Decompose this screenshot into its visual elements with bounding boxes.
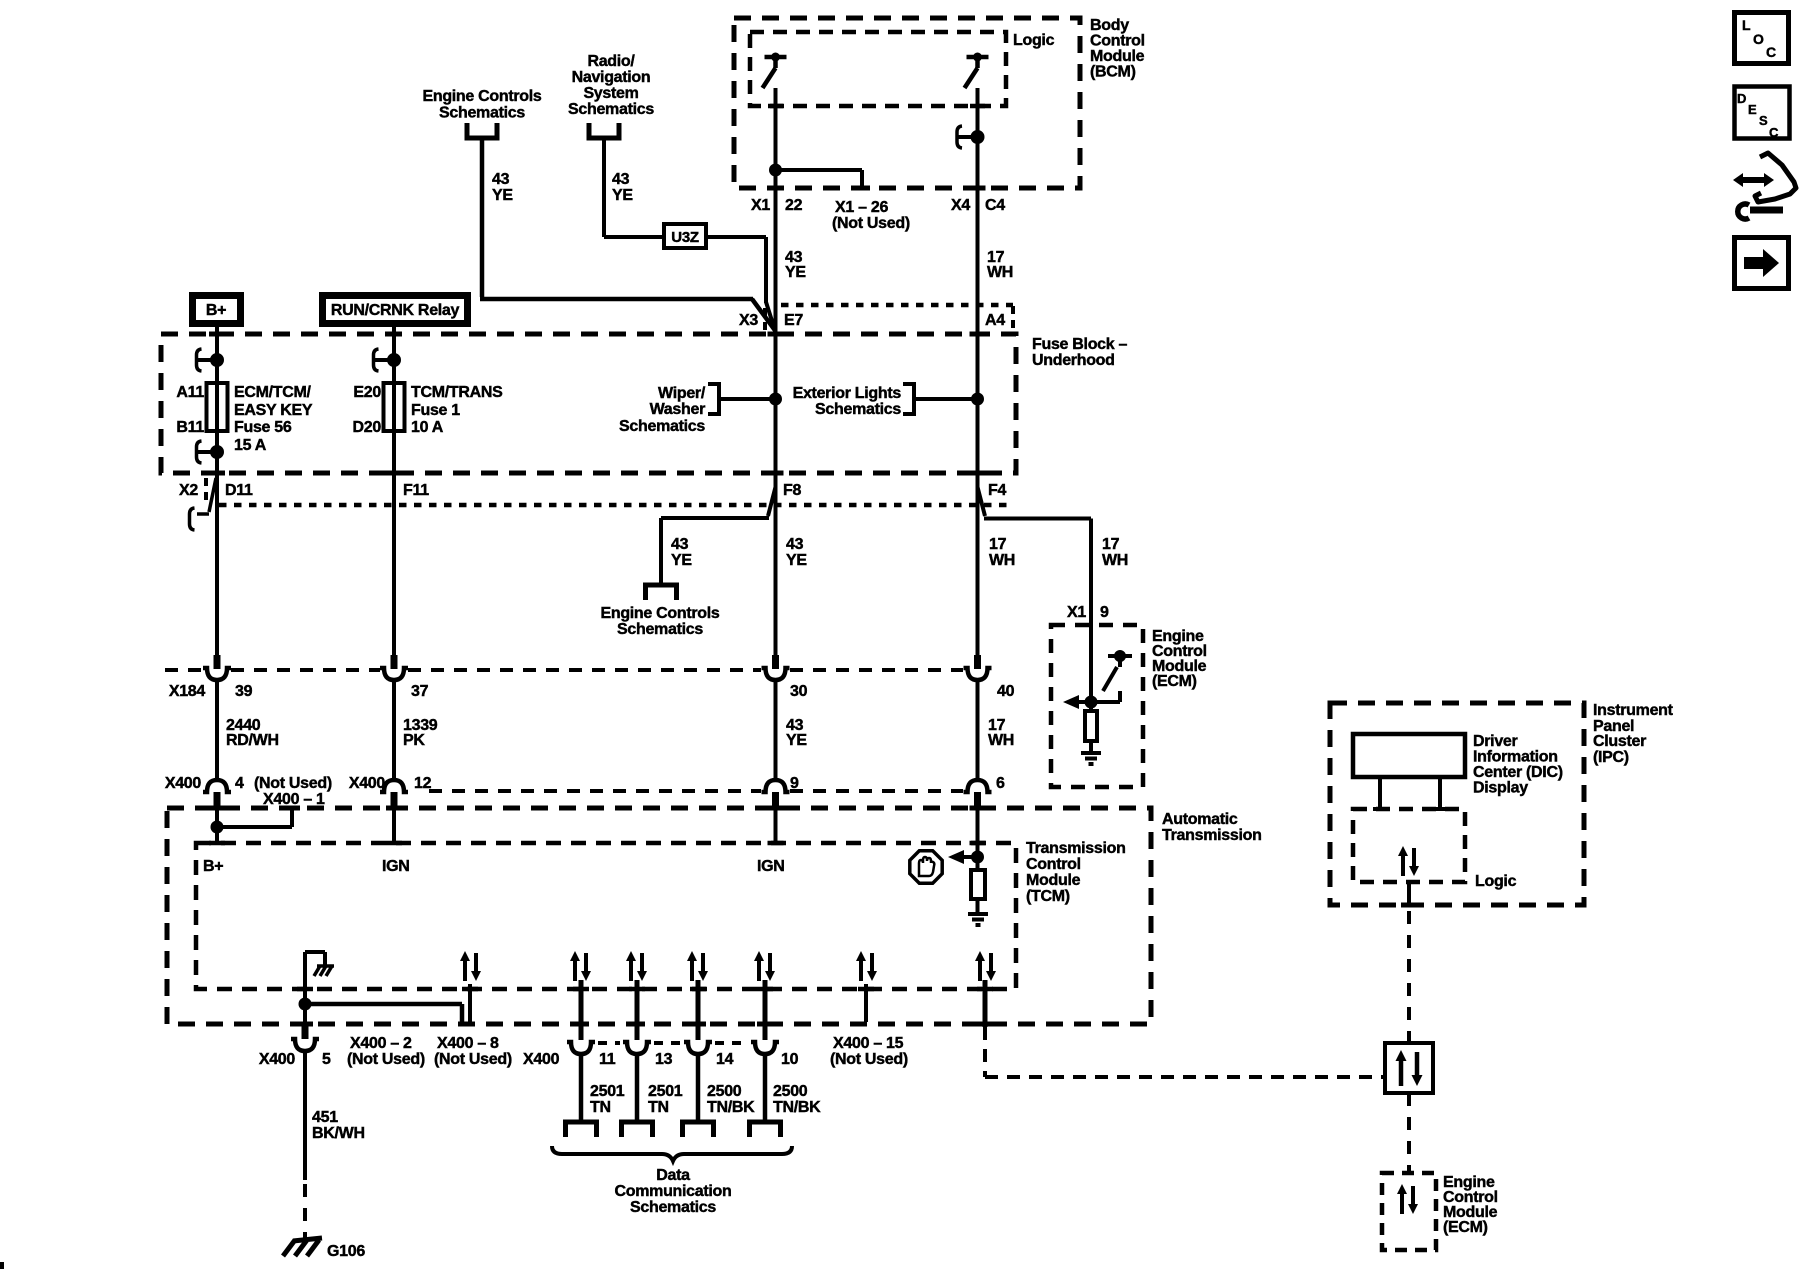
ground inside TCM bbox=[968, 914, 988, 925]
icon DESC box bbox=[1735, 87, 1790, 141]
svg-text:Information: Information bbox=[1473, 749, 1558, 766]
svg-text:39: 39 bbox=[235, 683, 253, 700]
svg-text:Cluster: Cluster bbox=[1593, 733, 1646, 750]
label 43 YE (engine controls drop) bbox=[492, 171, 513, 204]
wire 43 YE inside fuse block bbox=[774, 334, 778, 473]
label Engine Control Module (ECM) right bbox=[1152, 628, 1207, 690]
svg-text:22: 22 bbox=[785, 197, 803, 214]
svg-text:RUN/CRNK Relay: RUN/CRNK Relay bbox=[331, 302, 460, 319]
connector X184 pin 40 bbox=[964, 655, 992, 680]
svg-text:Washer: Washer bbox=[650, 401, 705, 418]
data link arrows pair (X400-15) bbox=[856, 951, 877, 981]
svg-text:15 A: 15 A bbox=[234, 437, 267, 454]
svg-text:Body: Body bbox=[1090, 17, 1129, 34]
svg-text:43: 43 bbox=[786, 536, 804, 553]
label Fuse Block - Underhood bbox=[1032, 336, 1128, 369]
svg-text:30: 30 bbox=[790, 683, 808, 700]
label 1339 PK bbox=[403, 717, 438, 749]
svg-text:9: 9 bbox=[790, 775, 799, 792]
label Wiper/Washer Schematics bbox=[619, 385, 706, 435]
wire exterior lights to 17 WH bbox=[914, 397, 973, 401]
label 17 WH (lower) bbox=[988, 717, 1014, 749]
svg-text:4: 4 bbox=[235, 775, 244, 792]
wire 2440 RD/WH (X184 to X400) bbox=[215, 680, 219, 781]
wire 43 YE (F8 to X184-30) bbox=[774, 473, 778, 655]
svg-text:Center (DIC): Center (DIC) bbox=[1473, 764, 1563, 781]
wire BCM 17 WH (switch to X4-C4) bbox=[976, 88, 980, 188]
svg-text:Automatic: Automatic bbox=[1162, 811, 1238, 828]
svg-text:TN/BK: TN/BK bbox=[707, 1099, 755, 1116]
data link arrows pair (X400-8) bbox=[460, 951, 481, 981]
svg-text:40: 40 bbox=[997, 683, 1015, 700]
svg-text:G106: G106 bbox=[327, 1243, 365, 1260]
wire 2440 RD/WH (D11 to X184-39) bbox=[215, 473, 219, 655]
in-line connector above fuse 1 bbox=[374, 349, 400, 371]
off-page connector (radio/nav) bbox=[587, 123, 622, 138]
label 17 WH (F4 drop) bbox=[989, 536, 1015, 569]
wire 17 WH branch down to ECM X1-9 bbox=[1089, 519, 1093, 703]
wire through fuse 1 bbox=[392, 360, 396, 473]
svg-text:O: O bbox=[1753, 31, 1764, 47]
chassis ground G106 bbox=[283, 1238, 322, 1256]
label X1 | 9 (ECM) bbox=[1067, 604, 1109, 621]
svg-text:12: 12 bbox=[414, 775, 432, 792]
label 43 YE (radio/nav drop) bbox=[612, 171, 633, 204]
svg-text:Data: Data bbox=[656, 1167, 690, 1184]
scan artifact bottom-left bbox=[0, 1262, 4, 1269]
junction dot TCM ground branch bbox=[301, 1000, 310, 1009]
wire 17 WH (BCM to fuse block A4) bbox=[976, 188, 980, 334]
wire 43 YE (X184 to X400) bbox=[774, 680, 778, 781]
crossing dashes fuse block bottom edge bbox=[209, 471, 986, 476]
module box Engine Control Module ECM (bottom) bbox=[1382, 1173, 1436, 1250]
label Driver Information Center (DIC) Display bbox=[1473, 733, 1563, 797]
svg-text:Engine Controls: Engine Controls bbox=[600, 605, 719, 622]
label Radio/Navigation System Schematics bbox=[568, 53, 654, 118]
label X1 - 26 (Not Used) bbox=[832, 199, 910, 232]
wire X400-1 branch (not used) bbox=[217, 808, 292, 827]
off-page terminator pin 13 bbox=[619, 1122, 655, 1137]
svg-text:B+: B+ bbox=[203, 858, 223, 875]
svg-text:RD/WH: RD/WH bbox=[226, 732, 279, 749]
svg-text:Module: Module bbox=[1090, 48, 1145, 65]
svg-text:10: 10 bbox=[781, 1051, 799, 1068]
svg-text:D: D bbox=[1737, 91, 1746, 106]
wire IGN (43 YE) into TCM bbox=[774, 806, 778, 843]
off-page terminator pin 11 bbox=[563, 1122, 599, 1137]
label 43 YE (branch) bbox=[671, 536, 692, 569]
svg-text:Schematics: Schematics bbox=[439, 105, 525, 122]
svg-text:Schematics: Schematics bbox=[568, 101, 654, 118]
svg-text:WH: WH bbox=[989, 552, 1015, 569]
label 17 WH (above A4) bbox=[987, 249, 1013, 281]
label 2440 RD/WH bbox=[226, 717, 279, 749]
splice U3Z box bbox=[664, 224, 706, 248]
svg-text:Exterior Lights: Exterior Lights bbox=[793, 385, 902, 402]
svg-text:(Not Used): (Not Used) bbox=[347, 1051, 425, 1068]
label X400 - 15 (Not Used) bbox=[830, 1035, 908, 1068]
label Exterior Lights Schematics bbox=[793, 385, 902, 418]
svg-text:YE: YE bbox=[786, 552, 807, 569]
svg-text:C4: C4 bbox=[985, 197, 1005, 214]
label A11 / B11 bbox=[176, 384, 204, 436]
wire 43 YE from engine controls schematics bbox=[480, 140, 776, 331]
module box Engine Control Module ECM (right) bbox=[1051, 625, 1143, 787]
connector tick X3 bbox=[763, 308, 767, 332]
data link arrows pair (pin 13) bbox=[626, 951, 647, 981]
svg-text:F11: F11 bbox=[403, 482, 429, 499]
wire 2500 TN/BK (pin 10) bbox=[763, 1054, 768, 1120]
wire 43 YE (BCM to fuse block E7) bbox=[774, 188, 778, 334]
data link arrows pair (pin 10) bbox=[754, 951, 775, 981]
wire X400-8 (not used) bbox=[468, 984, 472, 1022]
data connector strip dashes bbox=[598, 1041, 748, 1045]
svg-text:YE: YE bbox=[786, 732, 807, 749]
label 2500 TN/BK (pin 14) bbox=[707, 1083, 755, 1116]
X400 connector row dashed line bbox=[429, 789, 963, 793]
label Body Control Module (BCM) bbox=[1090, 17, 1145, 81]
wire 2500 TN/BK (pin 14) bbox=[696, 1054, 701, 1120]
svg-text:L: L bbox=[1742, 17, 1751, 33]
in-line connector below fuse 56 bbox=[197, 441, 223, 463]
icon LOC box bbox=[1735, 13, 1789, 64]
svg-text:YE: YE bbox=[612, 187, 633, 204]
label X1 | 22 bbox=[751, 197, 803, 214]
svg-text:Transmission: Transmission bbox=[1162, 827, 1262, 844]
svg-text:A11: A11 bbox=[176, 384, 204, 401]
svg-text:E: E bbox=[1748, 102, 1757, 117]
svg-text:F4: F4 bbox=[988, 482, 1006, 499]
svg-text:D20: D20 bbox=[353, 419, 382, 436]
svg-text:X2: X2 bbox=[179, 482, 198, 499]
connector X400 pin 10 bbox=[751, 1042, 779, 1054]
svg-text:2501: 2501 bbox=[648, 1083, 683, 1100]
wire wiper/washer to 43 YE bbox=[719, 397, 771, 401]
wire X400-2 branch (not used) bbox=[305, 1004, 462, 1022]
svg-text:ECM/TCM/: ECM/TCM/ bbox=[234, 384, 312, 401]
svg-text:43: 43 bbox=[492, 171, 510, 188]
svg-text:X400: X400 bbox=[349, 775, 386, 792]
off-page terminator pin 14 bbox=[680, 1122, 716, 1137]
svg-text:C: C bbox=[1769, 125, 1779, 140]
label 43 YE (above E7) bbox=[785, 249, 806, 281]
svg-text:BK/WH: BK/WH bbox=[312, 1125, 365, 1142]
svg-text:YE: YE bbox=[785, 264, 806, 281]
svg-text:TN/BK: TN/BK bbox=[773, 1099, 821, 1116]
svg-text:Engine Controls: Engine Controls bbox=[422, 88, 541, 105]
svg-text:2500: 2500 bbox=[773, 1083, 808, 1100]
data link arrows pair (pin 14) bbox=[687, 951, 708, 981]
label TCM/TRANS Fuse 1 10 A bbox=[411, 384, 503, 436]
dashed wire TCM to comm bus box bbox=[985, 1027, 1385, 1077]
fuse block underhood dashed box bbox=[161, 334, 1016, 473]
module box Instrument Panel Cluster IPC bbox=[1330, 703, 1584, 905]
svg-text:X1 – 26: X1 – 26 bbox=[835, 199, 888, 216]
wire 2501 TN (pin 11) bbox=[579, 1054, 584, 1120]
svg-text:IGN: IGN bbox=[382, 858, 410, 875]
resistor inside TCM bbox=[971, 857, 985, 914]
svg-text:WH: WH bbox=[988, 732, 1014, 749]
off-page connector engine controls (middle) bbox=[643, 585, 679, 600]
svg-text:C: C bbox=[1766, 44, 1776, 60]
label Engine Controls Schematics (middle) bbox=[600, 605, 719, 638]
svg-text:IGN: IGN bbox=[757, 858, 785, 875]
connector X400 pin 12 bbox=[380, 780, 408, 806]
data link arrows pair (pin 11) bbox=[570, 951, 591, 981]
svg-text:13: 13 bbox=[655, 1051, 673, 1068]
label Automatic Transmission bbox=[1162, 811, 1262, 844]
connector X400 pin 9 bbox=[762, 780, 790, 806]
svg-text:Transmission: Transmission bbox=[1026, 840, 1126, 857]
wire 1339 PK (F11 to X184-37) bbox=[392, 473, 396, 655]
crossing dashes TCM bottom edge bbox=[297, 987, 993, 992]
connector X184 pin 30 bbox=[762, 655, 790, 680]
wire 17 WH (F4 to X184-40) bbox=[976, 473, 980, 655]
resistor inside ECM bbox=[1085, 702, 1097, 753]
svg-text:Wiper/: Wiper/ bbox=[658, 385, 706, 402]
label 2501 TN (pin 11) bbox=[590, 1083, 625, 1116]
in-line connector above fuse 56 bbox=[197, 349, 223, 371]
TCM internal ground wire bbox=[305, 952, 325, 1004]
label Data Communication Schematics bbox=[615, 1167, 732, 1216]
svg-text:X400: X400 bbox=[523, 1051, 560, 1068]
svg-text:6: 6 bbox=[996, 775, 1005, 792]
switch (BCM left, drives 43 YE) bbox=[763, 53, 787, 89]
connector tick A4 bbox=[1011, 306, 1015, 333]
module box Body Control Module (BCM) bbox=[734, 18, 1080, 188]
wire RUN/CRNK to fuse E20 bbox=[392, 327, 396, 360]
arrows pair inside IPC logic bbox=[1398, 846, 1419, 876]
wire X1-26 not used branch bbox=[776, 170, 863, 188]
connector tick X2 bbox=[204, 478, 208, 503]
label X184 | 39 bbox=[169, 683, 253, 700]
switch (BCM right, drives 17 WH) bbox=[965, 53, 989, 89]
svg-text:Schematics: Schematics bbox=[815, 401, 901, 418]
svg-text:X400 – 1: X400 – 1 bbox=[263, 791, 325, 808]
wire 17 WH inside fuse block bbox=[976, 334, 980, 473]
svg-text:A4: A4 bbox=[985, 312, 1005, 329]
label Instrument Panel Cluster (IPC) bbox=[1593, 702, 1674, 766]
junction dot TCM 17 WH bbox=[973, 853, 982, 862]
svg-text:9: 9 bbox=[1100, 604, 1109, 621]
wire IPC logic to serial data (solid stub) bbox=[1407, 882, 1411, 907]
svg-text:Control: Control bbox=[1026, 856, 1081, 873]
svg-text:Display: Display bbox=[1473, 780, 1528, 797]
svg-text:Logic: Logic bbox=[1013, 32, 1055, 49]
svg-text:S: S bbox=[1759, 113, 1768, 128]
connector X400 pin 13 bbox=[623, 1042, 651, 1054]
label Engine Controls Schematics (top) bbox=[422, 88, 541, 122]
label ECM/TCM/ EASY KEY Fuse 56 15 A bbox=[234, 384, 313, 454]
svg-text:X400 – 15: X400 – 15 bbox=[833, 1035, 904, 1052]
data bus wire stub pin 10 bbox=[763, 980, 768, 1040]
dashed wire to G106 bbox=[303, 1184, 307, 1242]
svg-text:YE: YE bbox=[492, 187, 513, 204]
connector X400 pin 4 bbox=[203, 780, 231, 806]
fuse ECM/TCM/EASY KEY Fuse 56 bbox=[207, 383, 228, 431]
svg-text:X400 – 2: X400 – 2 bbox=[350, 1035, 412, 1052]
svg-text:10 A: 10 A bbox=[411, 419, 444, 436]
svg-text:Schematics: Schematics bbox=[617, 621, 703, 638]
wire 451 BK/WH to G106 bbox=[303, 1052, 307, 1180]
signal arrow out of ECM bbox=[1063, 695, 1091, 709]
label 2501 TN (pin 13) bbox=[648, 1083, 683, 1116]
label X2 | D11 bbox=[179, 482, 253, 499]
icon forward arrow box bbox=[1735, 238, 1789, 289]
svg-text:X3: X3 bbox=[739, 312, 758, 329]
label Transmission Control Module (TCM) bbox=[1026, 840, 1126, 905]
wire 2501 TN (pin 13) bbox=[635, 1054, 640, 1120]
label X3 | E7 bbox=[739, 312, 803, 329]
label Engine Control Module (ECM) bottom bbox=[1443, 1174, 1498, 1236]
svg-text:Driver: Driver bbox=[1473, 733, 1518, 750]
crossing dashes BCM bottom edge bbox=[768, 186, 986, 191]
wire B+ into TCM bbox=[215, 806, 219, 843]
svg-text:Navigation: Navigation bbox=[572, 69, 651, 86]
svg-text:(Not Used): (Not Used) bbox=[830, 1051, 908, 1068]
crossing dashes logic box bottom bbox=[768, 104, 985, 109]
svg-text:(ECM): (ECM) bbox=[1443, 1219, 1488, 1236]
wire 1339 PK (X184 to X400) bbox=[392, 680, 396, 781]
svg-text:Fuse 1: Fuse 1 bbox=[411, 402, 460, 419]
module box Transmission Control Module TCM bbox=[196, 843, 1016, 989]
off-page connector (engine controls top) bbox=[465, 123, 500, 138]
label E20 / D20 bbox=[353, 384, 382, 436]
svg-text:X1: X1 bbox=[751, 197, 770, 214]
svg-text:B+: B+ bbox=[206, 302, 226, 319]
svg-text:11: 11 bbox=[599, 1051, 616, 1068]
ground inside ECM bbox=[1081, 753, 1101, 764]
icon service tools bbox=[1733, 153, 1796, 219]
wire BCM 43 YE (switch to X1-22) bbox=[774, 88, 778, 188]
svg-text:Control: Control bbox=[1090, 33, 1145, 50]
data bus wire stub pin 11 bbox=[579, 980, 584, 1040]
fuse block lower connector strip dotted line bbox=[219, 503, 1013, 508]
connector X184 pin 37 bbox=[380, 655, 408, 680]
logic box inside BCM bbox=[750, 32, 1006, 106]
crossing dashes TCM top edge bbox=[209, 841, 986, 846]
terminal box B+ bbox=[193, 296, 241, 324]
svg-text:EASY KEY: EASY KEY bbox=[234, 402, 313, 419]
svg-text:(TCM): (TCM) bbox=[1026, 888, 1070, 905]
crossing dashes fuse block top edge bbox=[209, 332, 986, 337]
svg-text:(BCM): (BCM) bbox=[1090, 64, 1136, 81]
svg-text:X400 – 8: X400 – 8 bbox=[437, 1035, 499, 1052]
svg-text:Radio/: Radio/ bbox=[587, 53, 635, 70]
DIC display legs bbox=[1373, 777, 1447, 809]
junction dot X400-1 branch bbox=[213, 823, 222, 832]
svg-text:Module: Module bbox=[1026, 872, 1081, 889]
svg-text:E20: E20 bbox=[353, 384, 381, 401]
svg-text:B11: B11 bbox=[176, 419, 204, 436]
svg-text:YE: YE bbox=[671, 552, 692, 569]
connector X400 pin 5 bbox=[291, 1025, 319, 1051]
junction dot BCM branch bbox=[771, 166, 780, 175]
svg-text:2500: 2500 bbox=[707, 1083, 742, 1100]
wire 17 WH into TCM bbox=[976, 806, 980, 857]
label X400 - 8 (Not Used) bbox=[434, 1035, 512, 1068]
svg-text:Communication: Communication bbox=[615, 1183, 732, 1200]
connector X184 pin 39 bbox=[203, 655, 231, 680]
wire 43 YE from radio/nav through U3Z bbox=[604, 140, 662, 237]
signal arrow to stop lamp logic bbox=[948, 850, 978, 864]
label 43 YE (F8 drop) bbox=[786, 536, 807, 569]
svg-text:Fuse 56: Fuse 56 bbox=[234, 419, 292, 436]
branch jog F8 to engine controls bbox=[661, 487, 776, 518]
connector jog X2 on wire 2440 bbox=[190, 478, 217, 530]
svg-text:(Not Used): (Not Used) bbox=[434, 1051, 512, 1068]
bracket wiper/washer bbox=[708, 384, 719, 414]
label 451 BK/WH bbox=[312, 1109, 365, 1142]
svg-text:Underhood: Underhood bbox=[1032, 352, 1115, 369]
connector X400 pin 14 bbox=[684, 1042, 712, 1054]
svg-text:Fuse Block –: Fuse Block – bbox=[1032, 336, 1128, 353]
svg-text:43: 43 bbox=[671, 536, 689, 553]
svg-text:D11: D11 bbox=[225, 482, 253, 499]
dashed wire serial data box to ECM bbox=[1407, 1093, 1411, 1173]
wire through fuse 56 bbox=[215, 360, 219, 452]
switch inside ECM bbox=[1091, 652, 1132, 702]
svg-text:37: 37 bbox=[411, 683, 429, 700]
junction dot exterior lights on 17 WH bbox=[973, 395, 982, 404]
label X400 | 4 (Not Used) bbox=[165, 775, 332, 792]
connector X400 pin 6 bbox=[964, 780, 992, 806]
svg-text:WH: WH bbox=[1102, 552, 1128, 569]
svg-text:(Not Used): (Not Used) bbox=[254, 775, 332, 792]
crossing dash IPC bottom edge bbox=[1401, 903, 1417, 908]
svg-text:(IPC): (IPC) bbox=[1593, 749, 1629, 766]
label X400 - 2 (Not Used) bbox=[347, 1035, 425, 1068]
stop hand octagon symbol bbox=[910, 851, 942, 883]
terminal box RUN/CRNK Relay bbox=[323, 296, 468, 324]
label X400 | 5 (bottom) bbox=[259, 1051, 331, 1068]
data bus wire stub pin 14 bbox=[696, 980, 701, 1040]
wire 43 YE branch down to engine controls schematics bbox=[659, 518, 663, 583]
wire fuse 56 output to X2-D11 bbox=[215, 452, 219, 473]
automatic transmission dashed box bbox=[167, 808, 1151, 1024]
svg-text:E7: E7 bbox=[784, 312, 803, 329]
svg-text:17: 17 bbox=[989, 536, 1007, 553]
svg-text:F8: F8 bbox=[783, 482, 801, 499]
svg-text:Schematics: Schematics bbox=[630, 1199, 716, 1216]
svg-text:TN: TN bbox=[648, 1099, 669, 1116]
dashed wire IPC to serial data box bbox=[1407, 911, 1411, 1043]
brace data communication bbox=[552, 1146, 792, 1161]
crossing dashes transmission bottom edge bbox=[297, 1022, 993, 1027]
svg-text:WH: WH bbox=[987, 264, 1013, 281]
label 2500 TN/BK (pin 10) bbox=[773, 1083, 821, 1116]
connector X400 pin 11 bbox=[567, 1042, 595, 1054]
arrows pair inside bottom ECM bbox=[1397, 1184, 1418, 1214]
svg-text:14: 14 bbox=[716, 1051, 734, 1068]
wire 451 BK/WH through X400-5 bbox=[303, 1004, 307, 1025]
crossing dashes transmission top edge bbox=[209, 806, 986, 811]
junction dot ECM bbox=[1087, 698, 1096, 707]
wire U3Z output to E7 bbox=[706, 237, 776, 332]
svg-text:17: 17 bbox=[1102, 536, 1120, 553]
junction dot wiper/washer on 43 YE bbox=[771, 395, 780, 404]
X184 in-line connector row dashed line bbox=[165, 668, 963, 672]
wire IGN (1339 PK) into TCM bbox=[392, 806, 396, 843]
svg-text:System: System bbox=[583, 85, 638, 102]
svg-text:X400: X400 bbox=[259, 1051, 296, 1068]
fuse block connector strip dotted line (top) bbox=[781, 303, 1013, 308]
svg-text:Instrument: Instrument bbox=[1593, 702, 1674, 719]
label X4 | C4 bbox=[951, 197, 1005, 214]
bracket exterior lights bbox=[903, 384, 914, 414]
logic box inside IPC bbox=[1353, 809, 1465, 882]
label X400 | 12 bbox=[349, 775, 432, 792]
